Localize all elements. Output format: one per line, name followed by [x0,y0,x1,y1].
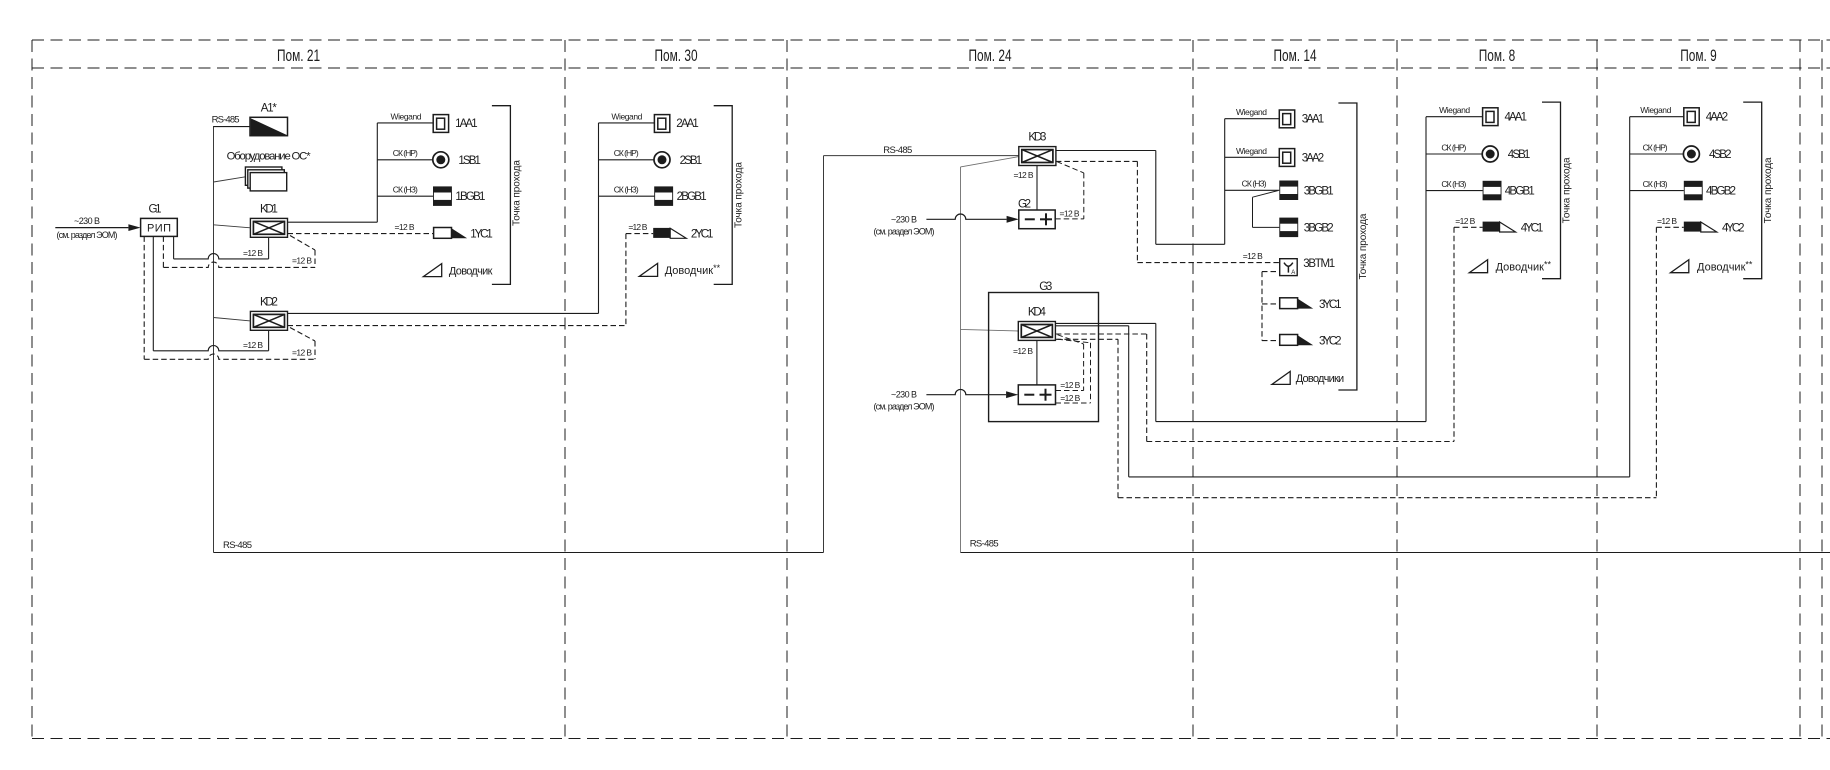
door controller KD3 [1019,147,1056,166]
G3 battery minus symbol [1024,394,1034,396]
svg-text:2AA1: 2AA1 [676,118,699,130]
svg-text:G3: G3 [1039,281,1052,293]
wire KD2 12V stem [268,330,270,351]
RS-485 bus3 vertical [960,167,962,553]
group1 bus vertical [376,123,378,222]
wire dashed G1 pin to KD1 12V return [162,236,164,267]
svg-text:СК (НР): СК (НР) [1441,142,1466,152]
RS-485 bus3 diagonal to KD4 [961,329,1019,331]
svg-text:=12 В: =12 В [1013,346,1033,356]
svg-text:4BGB1: 4BGB1 [1505,186,1535,198]
wire KD4 solid output2 horizontal to Pom9 bus [1129,476,1630,478]
door controller KD1 [250,218,287,237]
wire dashed KD3 power diagonal [1057,162,1084,173]
3BTM1 horn symbol [1284,263,1293,267]
door closer icon group2 [639,263,657,276]
wire SK(NZ) to 1BGB1 [377,195,433,197]
wire dashed 3YC branch vertical [1261,272,1263,341]
RS-485 bus1 riser to Pom24 [823,156,825,553]
svg-text:(см. раздел ЭОМ): (см. раздел ЭОМ) [874,402,935,412]
svg-text:(см. раздел ЭОМ): (см. раздел ЭОМ) [874,226,935,236]
wire dashed KD1 power return vertical [314,250,316,267]
card reader 2AA1 [654,115,669,133]
room boundary dashed vertical 6 [1596,40,1598,739]
svg-text:3AA1: 3AA1 [1302,114,1325,126]
wire dashed G3 power B up [1090,343,1092,403]
svg-text:СК (НР): СК (НР) [393,148,418,158]
svg-text:G2: G2 [1018,198,1031,210]
svg-text:Пом. 30: Пом. 30 [654,47,697,65]
svg-text:СК (НЗ): СК (НЗ) [614,185,639,195]
A1 black triangle [251,118,287,135]
G3 battery plus symbol [1040,394,1052,396]
svg-text:KD1: KD1 [260,204,278,216]
svg-text:Доводчик**: Доводчик** [1697,260,1753,274]
wire Wiegand to 3AA1 [1225,118,1280,120]
magnetic contact 2BGB1 [654,186,673,206]
svg-text:2YC1: 2YC1 [691,229,714,241]
wire ~230V to G3 [926,389,1006,394]
wire KD1 to group1 bus [288,221,378,223]
wire Wiegand to 1AA1 [377,122,433,124]
svg-text:=12 В: =12 В [395,222,415,232]
svg-text:RS-485: RS-485 [883,145,912,156]
svg-text:A1*: A1* [261,103,278,115]
electric lock 4YC2 [1684,222,1701,232]
svg-text:Пом. 21: Пом. 21 [277,47,320,65]
svg-text:G1: G1 [149,203,162,215]
svg-text:RS-485: RS-485 [223,540,252,551]
svg-text:1BGB1: 1BGB1 [455,191,485,203]
wire dashed KD2 power return vertical [314,341,316,359]
wire dashed KD4 12V out2 down [1117,339,1119,497]
door closer icon group5 [1671,260,1689,273]
svg-text:3YC1: 3YC1 [1319,299,1342,311]
group2 bus vertical [598,123,600,314]
wire dashed to 4YC1 [1454,226,1483,228]
svg-text:2SB1: 2SB1 [680,155,703,167]
exit button 2SB1 [654,152,670,168]
wire branch to 3BGB2 [1253,226,1280,228]
svg-text:Wiegand: Wiegand [1640,105,1671,115]
svg-text:A: A [1291,270,1295,276]
svg-text:Оборудование ОС*: Оборудование ОС* [227,151,312,163]
wire solid G1 pin to KD1 12V [173,236,175,259]
door closer icon group3 [1272,371,1290,384]
card reader 4AA1 [1483,108,1498,126]
svg-text:СК (НЗ): СК (НЗ) [1242,179,1267,189]
wire dashed KD4 12V out1 down [1146,334,1148,442]
door controller KD4 [1018,322,1055,341]
svg-text:(см. раздел ЭОМ): (см. раздел ЭОМ) [57,230,118,240]
wire dashed 3BTM1 branch left [1262,271,1280,273]
wire dashed KD2 power return horizontal [144,354,315,359]
svg-text:=12 В: =12 В [243,340,263,350]
wire KD4 solid output1 right [1056,322,1156,324]
wire dashed KD2 12V to 2YC1 [288,325,626,327]
svg-text:4SB2: 4SB2 [1709,149,1732,161]
wire SK(NZ) to 4BGB1 [1426,190,1483,192]
wire KD4 solid output2 right [1056,325,1129,327]
svg-text:Доводчики: Доводчики [1296,373,1345,385]
arrow into G1 [128,224,140,231]
frame top dashed line [32,39,1830,41]
room boundary dashed vertical 8 [1821,40,1823,739]
wire KD4 solid output2 down [1128,326,1130,477]
wire dashed KD3 12V down [1136,161,1138,262]
wire RS-485 to A1 [214,126,251,128]
svg-text:~230 В: ~230 В [891,214,917,224]
svg-text:=12 В: =12 В [1060,393,1080,403]
wire RS-485 branch to OS equipment [214,177,246,182]
svg-text:СК (НР): СК (НР) [614,148,639,158]
card reader 3AA1 [1279,110,1294,128]
wire dashed KD1 12V to 1YC1 [288,233,434,235]
RS-485 branch to KD1 [214,225,251,228]
wire KD1 12V horizontal to G1 [174,254,269,259]
wire dashed 2YC1 12V vertical [625,234,627,326]
wire dashed KD3 12V to 3BTM1 [1137,262,1279,264]
wire SK(NZ) to 4BGB2 [1630,190,1684,192]
electric lock 1YC1 [434,228,452,239]
svg-text:=12 В: =12 В [1014,170,1034,180]
wire KD1 12V stem [268,237,270,259]
electric lock 4YC1 [1483,222,1500,232]
G2 minus symbol [1025,218,1035,220]
wire KD4 12V stem [1036,340,1038,385]
OS equipment stacked rectangle front [250,173,287,191]
svg-text:Wiegand: Wiegand [611,111,642,121]
svg-text:Точка прохода: Точка прохода [1562,157,1573,223]
bracket group5 [1743,102,1762,279]
RS-485 bus1 bottom horizontal [214,552,824,554]
svg-text:KD2: KD2 [260,297,278,309]
wire dashed G3 power B diagonal to KD4 [1058,339,1091,343]
svg-text:Точка прохода: Точка прохода [733,162,744,228]
wire ~230V to G2 [926,214,1006,219]
svg-text:3BTM1: 3BTM1 [1303,258,1335,270]
magnetic contact 3BGB1 [1279,181,1298,201]
wire Wiegand to 2AA1 [599,122,655,124]
wire KD3 solid output to group3 bus [1156,243,1225,245]
wire KD3 12V stem [1036,166,1038,211]
wire SK(NR) to 4SB1 [1426,153,1483,155]
power unit G3 battery box [1018,385,1055,405]
RS-485 bus3 bottom horizontal [961,552,1830,554]
wire dashed to 2YC1 [626,233,653,235]
svg-text:3BGB2: 3BGB2 [1304,222,1334,234]
wire dashed KD3 12V right [1056,160,1138,162]
svg-text:=12 В: =12 В [292,256,312,266]
wire dashed G3 power A diagonal to KD4 [1058,335,1084,344]
power unit G2 box [1019,210,1055,229]
svg-text:Доводчик: Доводчик [449,265,493,277]
svg-text:Wiegand: Wiegand [1236,146,1267,156]
wire branch 3BGB2 vertical [1252,197,1254,227]
svg-text:Wiegand: Wiegand [391,111,422,121]
magnetic contact 1BGB1 [433,186,452,206]
bracket group2 [714,106,733,285]
svg-text:~230 В: ~230 В [891,390,917,400]
svg-text:СК (НЗ): СК (НЗ) [393,185,418,195]
wire solid G1 pin to KD2 12V [152,236,154,350]
wire dashed KD4 12V out2 horizontal to 4YC2 [1118,497,1656,499]
svg-text:СК (НЗ): СК (НЗ) [1441,179,1466,189]
wire dashed G3 power B right [1056,402,1091,404]
svg-text:=12 В: =12 В [628,222,647,232]
wire branch 3BGB1 to 3BGB2 diagonal [1253,191,1278,198]
svg-text:СК (НЗ): СК (НЗ) [1643,179,1668,189]
power supply G1 RIP box [141,218,178,236]
room boundary dashed vertical 2 [564,40,566,739]
svg-text:=12 В: =12 В [243,248,263,258]
svg-text:~230 В: ~230 В [74,216,100,226]
siren 3BTM1 box [1280,259,1298,276]
wire Wiegand to 4AA2 [1630,116,1684,118]
wire dashed KD2 power return diagonal [290,328,315,342]
exit button 1SB1 [433,152,449,168]
svg-text:Точка прохода: Точка прохода [1358,213,1369,279]
electric lock 3YC1 [1280,298,1298,309]
G2 plus symbol [1040,218,1052,220]
bracket group4 [1542,102,1561,279]
svg-text:2BGB1: 2BGB1 [677,191,707,203]
wire dashed KD3 power vertical [1083,173,1085,219]
svg-text:=12 В: =12 В [1657,216,1677,226]
svg-text:3YC2: 3YC2 [1319,336,1342,348]
svg-text:4AA2: 4AA2 [1706,112,1729,124]
svg-text:4AA1: 4AA1 [1505,112,1528,124]
arrow into G2 [1007,216,1019,223]
magnetic contact 3BGB2 [1279,218,1298,238]
card reader 4AA2 [1684,108,1699,126]
wire dashed 4YC2 12V vertical [1655,227,1657,497]
svg-text:Доводчик**: Доводчик** [1496,260,1552,274]
svg-text:Wiegand: Wiegand [1236,107,1267,117]
wire KD3 solid output down [1155,151,1157,245]
arrow into G3 [1006,391,1018,398]
RS-485 branch to KD2 [214,318,251,321]
svg-text:3AA2: 3AA2 [1302,152,1325,164]
wire dashed to 3YC2 [1262,340,1280,342]
svg-text:4BGB2: 4BGB2 [1706,186,1736,198]
svg-text:KD4: KD4 [1028,307,1047,319]
enclosure G3 box [989,293,1099,422]
wire KD2 to group2 bus [288,312,599,314]
wire SK(NZ) to 3BGB1 [1225,189,1280,191]
room boundary dashed vertical 3 [786,40,788,739]
svg-text:3BGB1: 3BGB1 [1304,185,1334,197]
room boundary dashed vertical 1 [31,40,33,739]
electric lock 3YC2 [1280,335,1298,346]
svg-text:KD3: KD3 [1028,132,1046,144]
svg-text:Wiegand: Wiegand [1439,105,1470,115]
wire KD4 solid output1 horizontal to Pom8 bus [1156,421,1426,423]
RS-485 bus3 diagonal to KD3 [961,157,1019,167]
magnetic contact 4BGB1 [1483,181,1502,201]
bracket group1 [492,106,511,285]
wire dashed to 3YC1 [1262,303,1280,305]
wire SK(NZ) to 2BGB1 [599,195,655,197]
svg-text:=12 В: =12 В [1060,380,1080,390]
wire Wiegand to 4AA1 [1426,116,1483,118]
wire dashed KD1 power return diagonal [290,236,315,251]
svg-text:1AA1: 1AA1 [455,118,478,130]
exit button 4SB1 [1482,146,1498,162]
exit button 4SB2 [1683,146,1699,162]
wire dashed 4YC1 12V vertical [1453,227,1455,441]
wire dashed G1 pin to KD2 12V return [143,236,145,359]
room boundary dashed vertical 7 [1799,40,1801,739]
card reader 3AA2 [1279,149,1294,167]
wire ~230V input to G1 [55,227,128,229]
OS equipment stacked rectangle middle [248,170,284,188]
svg-text:Пом. 8: Пом. 8 [1479,47,1515,65]
RS-485 wire to KD3 [824,155,1019,157]
room boundary dashed vertical 5 [1396,40,1398,739]
wire Wiegand to 3AA2 [1225,156,1280,158]
svg-text:Пом. 9: Пом. 9 [1680,47,1716,65]
wire dashed KD4 12V out1 right [1056,333,1147,335]
svg-text:Точка прохода: Точка прохода [512,160,523,226]
OS equipment stacked rectangle back [245,167,282,185]
wire KD2 12V horizontal to G1 [153,345,268,350]
svg-text:RS-485: RS-485 [970,539,999,550]
svg-text:=12 В: =12 В [292,348,312,358]
svg-text:=12 В: =12 В [1060,208,1080,218]
group5 bus vertical [1629,117,1631,477]
wire KD3 solid output right [1056,150,1156,152]
bracket group3 [1338,103,1357,390]
wire dashed G3 power A up [1083,344,1085,391]
wire dashed to 4YC2 [1656,226,1683,228]
wire SK(NR) to 1SB1 [377,159,433,161]
svg-text:=12 В: =12 В [1243,251,1263,261]
group3 bus vertical [1224,119,1226,245]
svg-text:4SB1: 4SB1 [1508,149,1531,161]
wire KD4 solid output1 down [1155,323,1157,421]
card reader 1AA1 [433,115,448,133]
door closer icon group4 [1469,260,1487,273]
wire SK(NR) to 2SB1 [599,159,655,161]
svg-text:1YC1: 1YC1 [470,229,493,241]
magnetic contact 4BGB2 [1684,181,1703,201]
svg-text:СК (НР): СК (НР) [1643,142,1668,152]
svg-text:RS-485: RS-485 [212,115,240,126]
electric lock 2YC1 [653,228,670,238]
svg-text:1SB1: 1SB1 [458,155,481,167]
door closer icon group1 [423,264,441,277]
wire dashed KD4 12V out2 right [1056,338,1118,340]
svg-text:=12 В: =12 В [1455,216,1475,226]
wire dashed G3 power A right [1056,390,1084,392]
svg-text:Доводчик**: Доводчик** [665,263,721,277]
wire dashed KD4 12V out1 horizontal to 4YC1 [1147,441,1454,443]
RS-485 bus1 vertical [213,126,215,553]
wire dashed G2 to KD3 power [1055,218,1084,220]
frame bottom dashed line [32,738,1830,740]
svg-text:Пом. 14: Пом. 14 [1273,47,1316,65]
svg-text:4YC1: 4YC1 [1521,222,1544,234]
svg-text:Точка прохода: Точка прохода [1763,157,1774,223]
interface converter A1 box [250,117,288,135]
svg-text:4YC2: 4YC2 [1722,222,1745,234]
group4 bus vertical [1425,117,1427,422]
wire SK(NR) to 4SB2 [1630,153,1684,155]
room boundary dashed vertical 4 [1192,40,1194,739]
svg-text:Пом. 24: Пом. 24 [968,47,1011,65]
door controller KD2 [250,311,287,330]
wire dashed KD1 power return horizontal [163,262,315,267]
frame header bottom dashed line [32,67,1830,69]
svg-text:РИП: РИП [147,223,171,235]
